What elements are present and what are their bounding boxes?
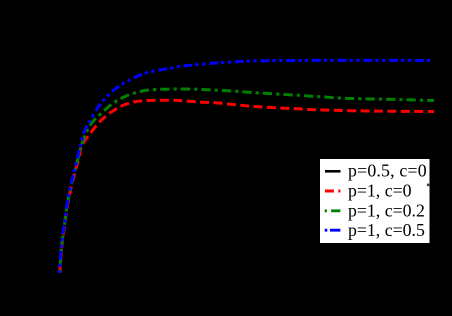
legend sample p=1,c=0.5 (blue) [325, 229, 341, 232]
svg-text:p=1, c=0: p=1, c=0 [348, 181, 412, 201]
legend box [320, 159, 430, 243]
svg-text:p=1, c=0.5: p=1, c=0.5 [348, 220, 425, 240]
svg-text:p=1, c=0.2: p=1, c=0.2 [348, 200, 425, 220]
legend sample p=0.5,c=0 (black solid) [325, 170, 341, 173]
curve p=1,c=0.2 (green dash-dot) [60, 89, 435, 273]
right axis tick fragment [427, 184, 429, 187]
legend sample p=1,c=0.2 (green) [325, 209, 341, 212]
legend sample p=1,c=0 (red) [325, 190, 341, 193]
curve p=1,c=0.5 (blue dash-dot-dot) [59, 60, 430, 273]
svg-text:p=0.5, c=0: p=0.5, c=0 [348, 161, 427, 181]
curve p=1,c=0 (red dashed) [60, 100, 434, 273]
